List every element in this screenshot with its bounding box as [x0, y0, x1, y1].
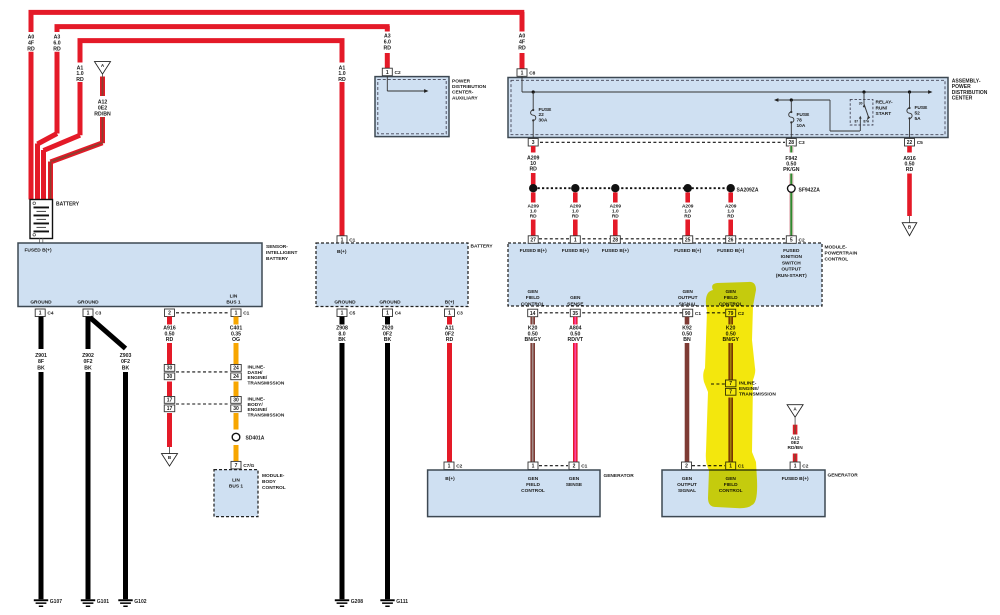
svg-text:1: 1	[341, 311, 344, 317]
svg-text:A36.0RD: A36.0RD	[53, 35, 61, 53]
svg-text:87: 87	[855, 119, 859, 123]
svg-text:C5: C5	[917, 140, 923, 146]
svg-text:GENERATOR: GENERATOR	[828, 473, 859, 479]
svg-text:7: 7	[235, 463, 238, 469]
svg-text:2: 2	[573, 464, 576, 470]
svg-text:A04FRD: A04FRD	[518, 34, 526, 52]
svg-text:5: 5	[790, 238, 793, 244]
svg-text:1: 1	[448, 311, 451, 317]
svg-text:A11.0RD: A11.0RD	[76, 65, 84, 83]
svg-text:FUSED B(+): FUSED B(+)	[674, 248, 701, 254]
svg-text:GROUND: GROUND	[379, 300, 401, 306]
svg-text:C1: C1	[581, 464, 587, 470]
svg-text:GROUND: GROUND	[30, 300, 52, 306]
svg-text:24: 24	[233, 374, 239, 380]
svg-text:FUSED B(+): FUSED B(+)	[782, 476, 809, 482]
svg-text:G111: G111	[396, 599, 408, 605]
svg-text:1: 1	[521, 71, 524, 77]
svg-text:A04FRD: A04FRD	[27, 35, 35, 53]
svg-text:1: 1	[386, 311, 389, 317]
svg-text:17: 17	[167, 398, 173, 404]
svg-text:A11.0RD: A11.0RD	[338, 65, 346, 83]
svg-text:C1: C1	[695, 311, 701, 317]
svg-text:B(+): B(+)	[445, 300, 455, 306]
svg-text:K920.50BN: K920.50BN	[682, 326, 692, 344]
svg-text:30: 30	[233, 406, 239, 412]
svg-text:1: 1	[39, 311, 42, 317]
svg-text:FUSED B(+): FUSED B(+)	[602, 248, 629, 254]
svg-text:17: 17	[167, 406, 173, 412]
svg-text:87A: 87A	[863, 119, 870, 123]
svg-text:30: 30	[167, 374, 173, 380]
svg-text:B(+): B(+)	[445, 476, 455, 482]
svg-text:C3: C3	[457, 311, 463, 317]
svg-text:FUSED B(+): FUSED B(+)	[25, 248, 52, 254]
svg-text:27: 27	[530, 238, 536, 244]
svg-text:26: 26	[728, 238, 734, 244]
svg-text:90: 90	[685, 311, 691, 317]
svg-text:G107: G107	[50, 599, 62, 605]
svg-text:22: 22	[907, 140, 913, 146]
svg-text:C4: C4	[395, 311, 401, 317]
svg-text:28: 28	[789, 140, 795, 146]
svg-text:BATTERY: BATTERY	[471, 244, 494, 250]
svg-text:FUSED B(+): FUSED B(+)	[520, 248, 547, 254]
svg-text:C3: C3	[799, 140, 805, 146]
svg-text:30: 30	[167, 366, 173, 372]
svg-text:30: 30	[859, 101, 863, 105]
svg-text:1: 1	[448, 464, 451, 470]
svg-text:1: 1	[235, 311, 238, 317]
svg-text:1: 1	[87, 311, 90, 317]
svg-text:B(+): B(+)	[337, 249, 347, 255]
svg-text:14: 14	[530, 311, 536, 317]
svg-text:1: 1	[794, 464, 797, 470]
svg-text:SF942ZA: SF942ZA	[799, 188, 821, 194]
svg-text:GENERATOR: GENERATOR	[604, 473, 635, 479]
svg-text:35: 35	[573, 311, 579, 317]
svg-text:C2: C2	[802, 464, 808, 470]
svg-text:30: 30	[233, 398, 239, 404]
svg-text:A36.0RD: A36.0RD	[384, 34, 392, 52]
svg-text:C8: C8	[529, 71, 535, 77]
svg-text:C4: C4	[47, 311, 53, 317]
svg-text:25: 25	[685, 238, 691, 244]
svg-text:FUSED B(+): FUSED B(+)	[717, 248, 744, 254]
svg-text:G208: G208	[351, 599, 363, 605]
svg-text:28: 28	[613, 238, 619, 244]
svg-text:SA209ZA: SA209ZA	[737, 187, 759, 193]
svg-text:1: 1	[532, 464, 535, 470]
svg-text:C3: C3	[95, 311, 101, 317]
svg-text:2: 2	[168, 311, 171, 317]
svg-text:SD401A: SD401A	[246, 435, 265, 441]
svg-text:C2: C2	[395, 70, 401, 76]
svg-text:3: 3	[532, 140, 535, 146]
svg-text:C2: C2	[799, 238, 805, 244]
svg-text:FUSED B(+): FUSED B(+)	[562, 248, 589, 254]
svg-text:1: 1	[386, 70, 389, 76]
svg-text:C2: C2	[456, 464, 462, 470]
svg-text:GROUND: GROUND	[334, 300, 356, 306]
svg-text:G101: G101	[97, 599, 109, 605]
svg-text:BATTERY: BATTERY	[56, 202, 80, 208]
svg-text:G102: G102	[134, 599, 146, 605]
svg-text:2: 2	[685, 464, 688, 470]
svg-text:C5: C5	[349, 311, 355, 317]
svg-text:C7/G: C7/G	[243, 463, 254, 469]
svg-text:A110F2RD: A110F2RD	[445, 326, 454, 344]
svg-text:GROUND: GROUND	[77, 300, 99, 306]
svg-text:C1: C1	[243, 311, 249, 317]
svg-text:24: 24	[233, 366, 239, 372]
svg-text:1: 1	[574, 238, 577, 244]
